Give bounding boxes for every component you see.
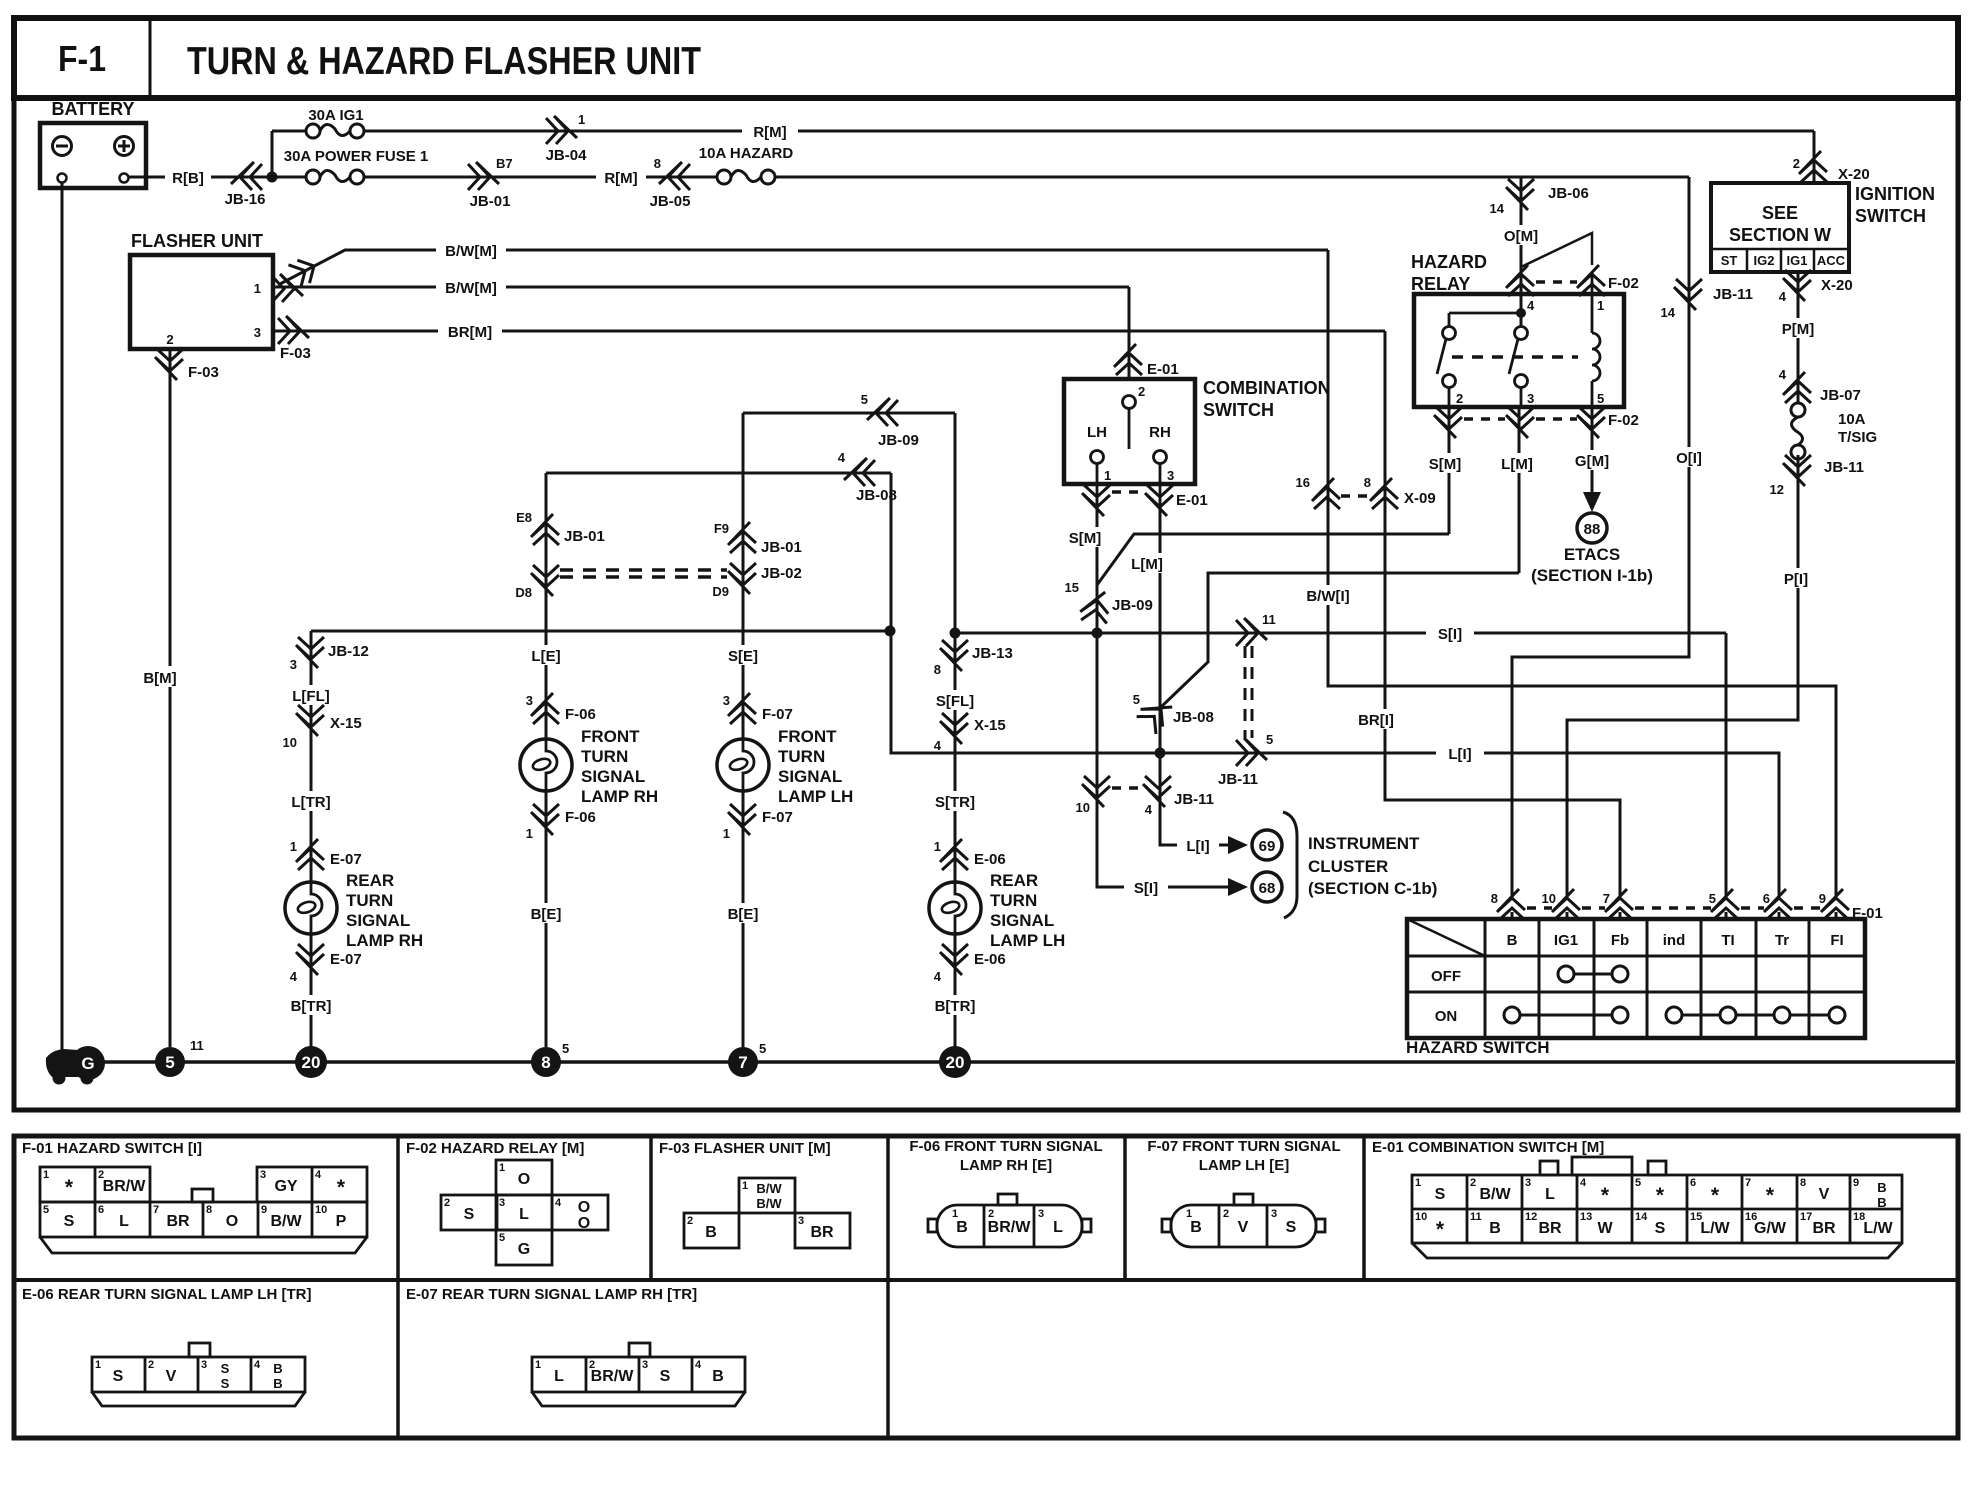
svg-text:HAZARD: HAZARD <box>1411 252 1487 272</box>
svg-text:30A POWER FUSE 1: 30A POWER FUSE 1 <box>284 148 428 165</box>
svg-text:S[TR]: S[TR] <box>935 794 975 811</box>
svg-text:F-07: F-07 <box>762 706 793 723</box>
svg-text:L[I]: L[I] <box>1186 838 1209 855</box>
svg-text:17: 17 <box>1800 1211 1812 1223</box>
svg-text:E-06: E-06 <box>974 951 1006 968</box>
svg-text:12: 12 <box>1770 482 1784 497</box>
svg-text:4: 4 <box>555 1197 562 1209</box>
svg-text:P: P <box>336 1213 347 1230</box>
svg-text:20: 20 <box>302 1053 321 1072</box>
svg-text:RH: RH <box>1149 424 1171 441</box>
svg-text:SEE: SEE <box>1762 203 1798 223</box>
svg-text:L: L <box>554 1368 564 1385</box>
svg-text:F-03 FLASHER UNIT [M]: F-03 FLASHER UNIT [M] <box>659 1140 831 1157</box>
svg-text:F-02 HAZARD RELAY [M]: F-02 HAZARD RELAY [M] <box>406 1140 584 1157</box>
svg-text:*: * <box>337 1176 346 1199</box>
svg-text:E-06: E-06 <box>974 851 1006 868</box>
svg-text:F-07: F-07 <box>762 809 793 826</box>
svg-text:*: * <box>1601 1184 1610 1207</box>
svg-text:R[B]: R[B] <box>172 170 204 187</box>
svg-text:S: S <box>1435 1186 1446 1203</box>
svg-text:S: S <box>464 1206 475 1223</box>
svg-text:30A IG1: 30A IG1 <box>308 107 363 124</box>
svg-text:1: 1 <box>499 1162 505 1174</box>
svg-text:Fb: Fb <box>1611 932 1629 949</box>
svg-text:O: O <box>518 1171 530 1188</box>
svg-text:IG2: IG2 <box>1754 253 1775 268</box>
svg-text:TURN: TURN <box>346 891 393 910</box>
svg-text:B/W: B/W <box>756 1181 782 1196</box>
svg-text:LAMP LH [E]: LAMP LH [E] <box>1199 1157 1290 1174</box>
svg-text:B: B <box>705 1224 717 1241</box>
svg-text:X-20: X-20 <box>1821 277 1853 294</box>
svg-text:3: 3 <box>1038 1208 1044 1220</box>
svg-text:S: S <box>64 1213 75 1230</box>
svg-text:1: 1 <box>1415 1177 1421 1189</box>
svg-text:F-07 FRONT TURN SIGNAL: F-07 FRONT TURN SIGNAL <box>1147 1138 1340 1155</box>
svg-text:BR/W: BR/W <box>988 1219 1032 1236</box>
svg-text:S[M]: S[M] <box>1429 456 1462 473</box>
svg-text:TURN: TURN <box>778 747 825 766</box>
svg-text:4: 4 <box>838 450 846 465</box>
svg-text:B[E]: B[E] <box>531 906 562 923</box>
svg-text:L/W: L/W <box>1700 1220 1730 1237</box>
svg-text:S: S <box>221 1376 230 1391</box>
svg-text:1: 1 <box>723 826 730 841</box>
svg-text:5: 5 <box>499 1232 505 1244</box>
svg-text:O: O <box>226 1213 238 1230</box>
svg-text:8: 8 <box>934 662 941 677</box>
svg-text:L: L <box>1053 1219 1063 1236</box>
svg-text:F-03: F-03 <box>188 364 219 381</box>
svg-text:JB-06: JB-06 <box>1548 185 1589 202</box>
svg-text:8: 8 <box>541 1053 550 1072</box>
svg-text:FRONT: FRONT <box>778 727 837 746</box>
svg-text:8: 8 <box>1800 1177 1806 1189</box>
svg-text:SIGNAL: SIGNAL <box>346 911 410 930</box>
svg-text:*: * <box>1656 1184 1665 1207</box>
svg-text:BR: BR <box>1538 1220 1562 1237</box>
svg-text:1: 1 <box>535 1359 541 1371</box>
svg-text:JB-11: JB-11 <box>1824 459 1864 476</box>
svg-text:2: 2 <box>1793 156 1800 171</box>
svg-text:5: 5 <box>1709 891 1716 906</box>
svg-text:1: 1 <box>526 826 533 841</box>
svg-text:D8: D8 <box>515 585 532 600</box>
svg-text:JB-09: JB-09 <box>1112 597 1153 614</box>
svg-text:8: 8 <box>206 1204 212 1216</box>
svg-text:E-07: E-07 <box>330 951 362 968</box>
svg-text:BR/W: BR/W <box>591 1368 635 1385</box>
svg-text:B: B <box>273 1361 282 1376</box>
svg-text:L[TR]: L[TR] <box>291 794 330 811</box>
svg-text:B/W: B/W <box>270 1213 302 1230</box>
svg-text:6: 6 <box>1763 891 1770 906</box>
svg-text:B[TR]: B[TR] <box>291 998 332 1015</box>
svg-text:SIGNAL: SIGNAL <box>778 767 842 786</box>
svg-text:*: * <box>1766 1184 1775 1207</box>
svg-text:B: B <box>273 1376 282 1391</box>
svg-text:JB-11: JB-11 <box>1713 286 1753 303</box>
svg-text:2: 2 <box>148 1359 154 1371</box>
svg-text:4: 4 <box>1527 298 1535 313</box>
svg-text:L/W: L/W <box>1863 1220 1893 1237</box>
svg-text:REAR: REAR <box>346 871 394 890</box>
svg-text:IG1: IG1 <box>1787 253 1808 268</box>
svg-text:BR/W: BR/W <box>103 1178 147 1195</box>
svg-text:4: 4 <box>934 738 942 753</box>
svg-text:B7: B7 <box>496 156 513 171</box>
svg-text:B: B <box>1507 932 1518 949</box>
svg-text:SECTION W: SECTION W <box>1729 225 1831 245</box>
svg-text:IGNITION: IGNITION <box>1855 184 1935 204</box>
svg-text:1: 1 <box>95 1359 101 1371</box>
svg-text:B: B <box>1190 1219 1202 1236</box>
svg-text:L[M]: L[M] <box>1501 456 1533 473</box>
svg-text:14: 14 <box>1661 305 1676 320</box>
svg-text:1: 1 <box>1104 468 1111 483</box>
svg-text:ACC: ACC <box>1817 253 1846 268</box>
svg-text:JB-07: JB-07 <box>1820 387 1861 404</box>
svg-text:ON: ON <box>1435 1008 1458 1025</box>
svg-text:JB-09: JB-09 <box>878 432 919 449</box>
svg-text:S: S <box>113 1368 124 1385</box>
svg-text:L[M]: L[M] <box>1131 556 1163 573</box>
svg-text:13: 13 <box>1580 1211 1592 1223</box>
svg-text:G: G <box>81 1054 94 1073</box>
svg-text:7: 7 <box>1745 1177 1751 1189</box>
svg-text:FRONT: FRONT <box>581 727 640 746</box>
svg-text:3: 3 <box>1527 391 1534 406</box>
svg-text:68: 68 <box>1259 880 1276 897</box>
svg-text:L: L <box>519 1206 529 1223</box>
svg-text:LAMP RH [E]: LAMP RH [E] <box>960 1157 1052 1174</box>
svg-text:*: * <box>65 1176 74 1199</box>
svg-text:D9: D9 <box>712 584 729 599</box>
svg-text:2: 2 <box>166 332 173 347</box>
svg-text:JB-13: JB-13 <box>972 645 1013 662</box>
svg-text:B: B <box>1877 1195 1886 1210</box>
svg-text:4: 4 <box>254 1359 261 1371</box>
svg-text:TURN & HAZARD FLASHER UNIT: TURN & HAZARD FLASHER UNIT <box>187 40 701 83</box>
svg-text:O[I]: O[I] <box>1676 450 1702 467</box>
svg-text:(SECTION I-1b): (SECTION I-1b) <box>1531 566 1653 585</box>
svg-text:L[E]: L[E] <box>531 648 560 665</box>
svg-text:X-20: X-20 <box>1838 166 1870 183</box>
svg-text:COMBINATION: COMBINATION <box>1203 378 1331 398</box>
svg-text:10: 10 <box>1076 800 1090 815</box>
svg-text:X-15: X-15 <box>974 717 1006 734</box>
svg-text:1: 1 <box>254 281 261 296</box>
svg-text:5: 5 <box>43 1204 49 1216</box>
svg-text:JB-02: JB-02 <box>761 565 802 582</box>
svg-text:11: 11 <box>1262 612 1276 627</box>
svg-text:SIGNAL: SIGNAL <box>581 767 645 786</box>
svg-text:TURN: TURN <box>581 747 628 766</box>
svg-text:G: G <box>518 1241 530 1258</box>
svg-text:20: 20 <box>946 1053 965 1072</box>
svg-text:BATTERY: BATTERY <box>52 99 135 119</box>
svg-text:B/W[M]: B/W[M] <box>445 243 497 260</box>
svg-text:B[M]: B[M] <box>143 670 176 687</box>
svg-text:O[M]: O[M] <box>1504 228 1538 245</box>
svg-text:L[I]: L[I] <box>1448 746 1471 763</box>
svg-text:3: 3 <box>1271 1208 1277 1220</box>
svg-text:RELAY: RELAY <box>1411 274 1470 294</box>
svg-text:ST: ST <box>1721 253 1738 268</box>
svg-text:9: 9 <box>1819 891 1826 906</box>
svg-text:F-01 HAZARD SWITCH [I]: F-01 HAZARD SWITCH [I] <box>22 1140 202 1157</box>
svg-text:4: 4 <box>290 969 298 984</box>
svg-text:JB-08: JB-08 <box>1173 709 1214 726</box>
svg-text:3: 3 <box>201 1359 207 1371</box>
svg-text:F-02: F-02 <box>1608 412 1639 429</box>
svg-text:R[M]: R[M] <box>753 124 786 141</box>
svg-text:3: 3 <box>254 325 261 340</box>
svg-text:5: 5 <box>1266 732 1273 747</box>
svg-text:4: 4 <box>1779 289 1787 304</box>
svg-text:1: 1 <box>742 1180 748 1192</box>
svg-text:SIGNAL: SIGNAL <box>990 911 1054 930</box>
svg-text:E-07 REAR TURN SIGNAL LAMP RH: E-07 REAR TURN SIGNAL LAMP RH [TR] <box>406 1286 697 1303</box>
svg-text:S[M]: S[M] <box>1069 530 1102 547</box>
svg-text:LH: LH <box>1087 424 1107 441</box>
svg-text:LAMP RH: LAMP RH <box>346 931 423 950</box>
svg-text:F-1: F-1 <box>58 38 106 79</box>
svg-text:9: 9 <box>1853 1177 1859 1189</box>
svg-text:F-06: F-06 <box>565 706 596 723</box>
svg-text:6: 6 <box>1690 1177 1696 1189</box>
svg-text:11: 11 <box>190 1038 204 1053</box>
svg-text:BR[I]: BR[I] <box>1358 712 1394 729</box>
svg-text:10: 10 <box>283 735 297 750</box>
svg-text:2: 2 <box>1456 391 1463 406</box>
svg-text:3: 3 <box>642 1359 648 1371</box>
svg-text:V: V <box>166 1368 177 1385</box>
svg-text:IG1: IG1 <box>1554 932 1578 949</box>
svg-text:S: S <box>660 1368 671 1385</box>
svg-text:3: 3 <box>260 1169 266 1181</box>
svg-text:4: 4 <box>1580 1177 1587 1189</box>
svg-text:4: 4 <box>1779 367 1787 382</box>
svg-text:B[TR]: B[TR] <box>935 998 976 1015</box>
svg-text:4: 4 <box>934 969 942 984</box>
svg-text:JB-12: JB-12 <box>328 643 369 660</box>
svg-text:GY: GY <box>274 1178 297 1195</box>
svg-text:JB-11: JB-11 <box>1218 771 1258 788</box>
svg-text:V: V <box>1819 1186 1830 1203</box>
svg-text:X-09: X-09 <box>1404 490 1436 507</box>
svg-text:2: 2 <box>1470 1177 1476 1189</box>
svg-text:CLUSTER: CLUSTER <box>1308 857 1388 876</box>
svg-text:S: S <box>221 1361 230 1376</box>
svg-text:F-06: F-06 <box>565 809 596 826</box>
svg-text:12: 12 <box>1525 1211 1537 1223</box>
svg-text:4: 4 <box>695 1359 702 1371</box>
svg-text:INSTRUMENT: INSTRUMENT <box>1308 834 1420 853</box>
svg-text:4: 4 <box>1145 802 1153 817</box>
svg-text:FI: FI <box>1830 932 1843 949</box>
svg-text:B/W[I]: B/W[I] <box>1306 588 1349 605</box>
svg-text:5: 5 <box>165 1053 174 1072</box>
svg-text:W: W <box>1597 1220 1613 1237</box>
svg-text:F-03: F-03 <box>280 345 311 362</box>
svg-text:7: 7 <box>1603 891 1610 906</box>
svg-text:E-06 REAR TURN SIGNAL LAMP LH: E-06 REAR TURN SIGNAL LAMP LH [TR] <box>22 1286 311 1303</box>
svg-text:TI: TI <box>1721 932 1734 949</box>
svg-text:3: 3 <box>526 693 533 708</box>
svg-text:5: 5 <box>562 1041 569 1056</box>
svg-text:1: 1 <box>934 839 941 854</box>
svg-text:10A: 10A <box>1838 411 1866 428</box>
svg-text:E8: E8 <box>516 510 532 525</box>
svg-text:1: 1 <box>290 839 297 854</box>
svg-text:14: 14 <box>1490 201 1505 216</box>
svg-text:R[M]: R[M] <box>604 170 637 187</box>
svg-text:G/W: G/W <box>1754 1220 1787 1237</box>
svg-text:BR[M]: BR[M] <box>448 324 492 341</box>
svg-text:5: 5 <box>1597 391 1604 406</box>
svg-text:SWITCH: SWITCH <box>1203 400 1274 420</box>
svg-text:JB-01: JB-01 <box>564 528 605 545</box>
svg-text:G[M]: G[M] <box>1575 453 1609 470</box>
svg-text:S: S <box>1655 1220 1666 1237</box>
svg-text:BR: BR <box>810 1224 834 1241</box>
svg-text:2: 2 <box>1223 1208 1229 1220</box>
svg-text:88: 88 <box>1584 521 1601 538</box>
svg-text:69: 69 <box>1259 838 1276 855</box>
svg-text:P[I]: P[I] <box>1784 571 1808 588</box>
svg-text:1: 1 <box>1597 298 1604 313</box>
svg-text:3: 3 <box>1167 468 1174 483</box>
svg-text:7: 7 <box>738 1053 747 1072</box>
svg-text:S[I]: S[I] <box>1438 626 1462 643</box>
svg-text:8: 8 <box>1491 891 1498 906</box>
svg-text:S: S <box>1286 1219 1297 1236</box>
svg-text:E-01: E-01 <box>1147 361 1179 378</box>
svg-text:15: 15 <box>1065 580 1079 595</box>
svg-text:16: 16 <box>1296 475 1310 490</box>
svg-text:B: B <box>1877 1180 1886 1195</box>
svg-text:F-06 FRONT TURN SIGNAL: F-06 FRONT TURN SIGNAL <box>909 1138 1102 1155</box>
svg-text:2: 2 <box>444 1197 450 1209</box>
svg-text:Tr: Tr <box>1775 932 1789 949</box>
svg-text:B/W: B/W <box>756 1196 782 1211</box>
svg-text:T/SIG: T/SIG <box>1838 429 1877 446</box>
svg-text:LAMP LH: LAMP LH <box>990 931 1065 950</box>
svg-text:E-07: E-07 <box>330 851 362 868</box>
svg-text:F9: F9 <box>714 521 729 536</box>
svg-text:6: 6 <box>98 1204 104 1216</box>
svg-text:JB-11: JB-11 <box>1174 791 1214 808</box>
svg-text:JB-01: JB-01 <box>470 193 511 210</box>
svg-text:3: 3 <box>798 1215 804 1227</box>
svg-text:V: V <box>1238 1219 1249 1236</box>
svg-text:*: * <box>1436 1218 1445 1241</box>
svg-text:S[E]: S[E] <box>728 648 758 665</box>
svg-text:E-01 COMBINATION SWITCH [M]: E-01 COMBINATION SWITCH [M] <box>1372 1139 1604 1156</box>
svg-text:2: 2 <box>687 1215 693 1227</box>
svg-text:1: 1 <box>578 112 585 127</box>
svg-text:10: 10 <box>1542 891 1556 906</box>
svg-text:JB-16: JB-16 <box>225 191 266 208</box>
svg-text:LAMP RH: LAMP RH <box>581 787 658 806</box>
svg-text:OFF: OFF <box>1431 968 1461 985</box>
svg-text:5: 5 <box>759 1041 766 1056</box>
svg-text:1: 1 <box>43 1169 49 1181</box>
svg-text:3: 3 <box>499 1197 505 1209</box>
svg-text:5: 5 <box>1635 1177 1641 1189</box>
svg-text:P[M]: P[M] <box>1782 321 1815 338</box>
svg-text:3: 3 <box>1525 1177 1531 1189</box>
svg-text:REAR: REAR <box>990 871 1038 890</box>
svg-text:O: O <box>578 1215 590 1232</box>
svg-text:ETACS: ETACS <box>1564 545 1620 564</box>
svg-text:ind: ind <box>1663 932 1686 949</box>
svg-text:B: B <box>956 1219 968 1236</box>
svg-text:O: O <box>578 1199 590 1216</box>
svg-text:JB-04: JB-04 <box>546 147 588 164</box>
svg-text:9: 9 <box>261 1204 267 1216</box>
svg-text:4: 4 <box>315 1169 322 1181</box>
svg-text:B: B <box>1489 1220 1501 1237</box>
svg-text:TURN: TURN <box>990 891 1037 910</box>
svg-text:F-02: F-02 <box>1608 275 1639 292</box>
svg-text:L[FL]: L[FL] <box>292 688 329 705</box>
svg-text:5: 5 <box>861 392 868 407</box>
svg-text:LAMP LH: LAMP LH <box>778 787 853 806</box>
svg-text:E-01: E-01 <box>1176 492 1208 509</box>
svg-text:FLASHER UNIT: FLASHER UNIT <box>131 231 263 251</box>
svg-text:3: 3 <box>290 657 297 672</box>
svg-text:*: * <box>1711 1184 1720 1207</box>
svg-text:B/W[M]: B/W[M] <box>445 280 497 297</box>
svg-text:L: L <box>1545 1186 1555 1203</box>
svg-text:HAZARD SWITCH: HAZARD SWITCH <box>1406 1038 1550 1057</box>
svg-text:X-15: X-15 <box>330 715 362 732</box>
svg-text:3: 3 <box>723 693 730 708</box>
svg-text:B: B <box>712 1368 724 1385</box>
svg-text:SWITCH: SWITCH <box>1855 206 1926 226</box>
svg-text:5: 5 <box>1133 692 1140 707</box>
svg-text:B/W: B/W <box>1479 1186 1511 1203</box>
svg-text:BR: BR <box>1812 1220 1836 1237</box>
svg-text:(SECTION C-1b): (SECTION C-1b) <box>1308 879 1437 898</box>
svg-text:L: L <box>119 1213 129 1230</box>
svg-text:10A HAZARD: 10A HAZARD <box>699 145 794 162</box>
svg-text:8: 8 <box>1364 475 1371 490</box>
svg-text:S[FL]: S[FL] <box>936 693 974 710</box>
svg-text:8: 8 <box>654 156 661 171</box>
svg-text:JB-01: JB-01 <box>761 539 802 556</box>
svg-text:JB-08: JB-08 <box>856 487 897 504</box>
svg-text:B[E]: B[E] <box>728 906 759 923</box>
svg-text:JB-05: JB-05 <box>650 193 691 210</box>
svg-text:S[I]: S[I] <box>1134 880 1158 897</box>
svg-text:11: 11 <box>1470 1211 1482 1223</box>
svg-text:BR: BR <box>166 1213 190 1230</box>
svg-text:7: 7 <box>153 1204 159 1216</box>
svg-text:10: 10 <box>1415 1211 1427 1223</box>
svg-text:2: 2 <box>1138 384 1145 399</box>
svg-text:10: 10 <box>315 1204 327 1216</box>
svg-text:14: 14 <box>1635 1211 1648 1223</box>
